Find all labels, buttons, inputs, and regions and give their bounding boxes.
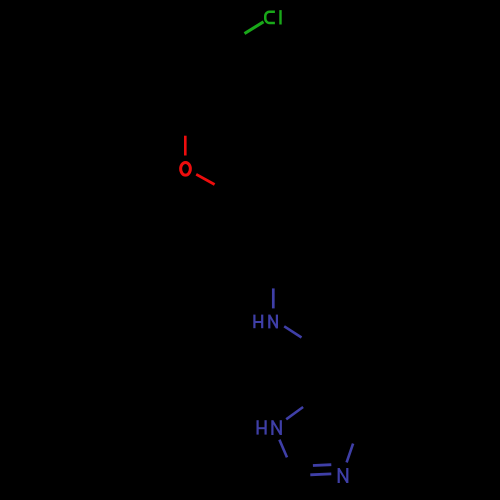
atom label HN (imidazole N1-H) xyxy=(258,420,281,435)
bond N1-C2 half (blue, imidazole down) xyxy=(279,440,287,458)
bond N3-C4 half (blue, up-right) xyxy=(347,444,354,463)
bond N-C half diagonal (blue, amine) xyxy=(284,326,301,337)
bond C-O half vertical (red) xyxy=(184,136,187,156)
bond N1-C5 half (blue, imidazole up-right) xyxy=(286,407,303,419)
bond C-N half vertical (blue, amine) xyxy=(272,288,275,308)
atom label O (ether oxygen) xyxy=(181,162,191,175)
bond C-Cl half (green) xyxy=(245,22,264,34)
atom label HN (amine nitrogen) xyxy=(254,315,277,329)
bond C2=N3 half, main line (blue) xyxy=(310,472,331,476)
bond O-C half diagonal (red) xyxy=(196,174,214,184)
bond C2=N3 half, inner line (blue) xyxy=(313,463,331,467)
atom label N (imidazole N3) xyxy=(339,468,348,483)
atom label Cl (chlorine) xyxy=(265,10,280,24)
